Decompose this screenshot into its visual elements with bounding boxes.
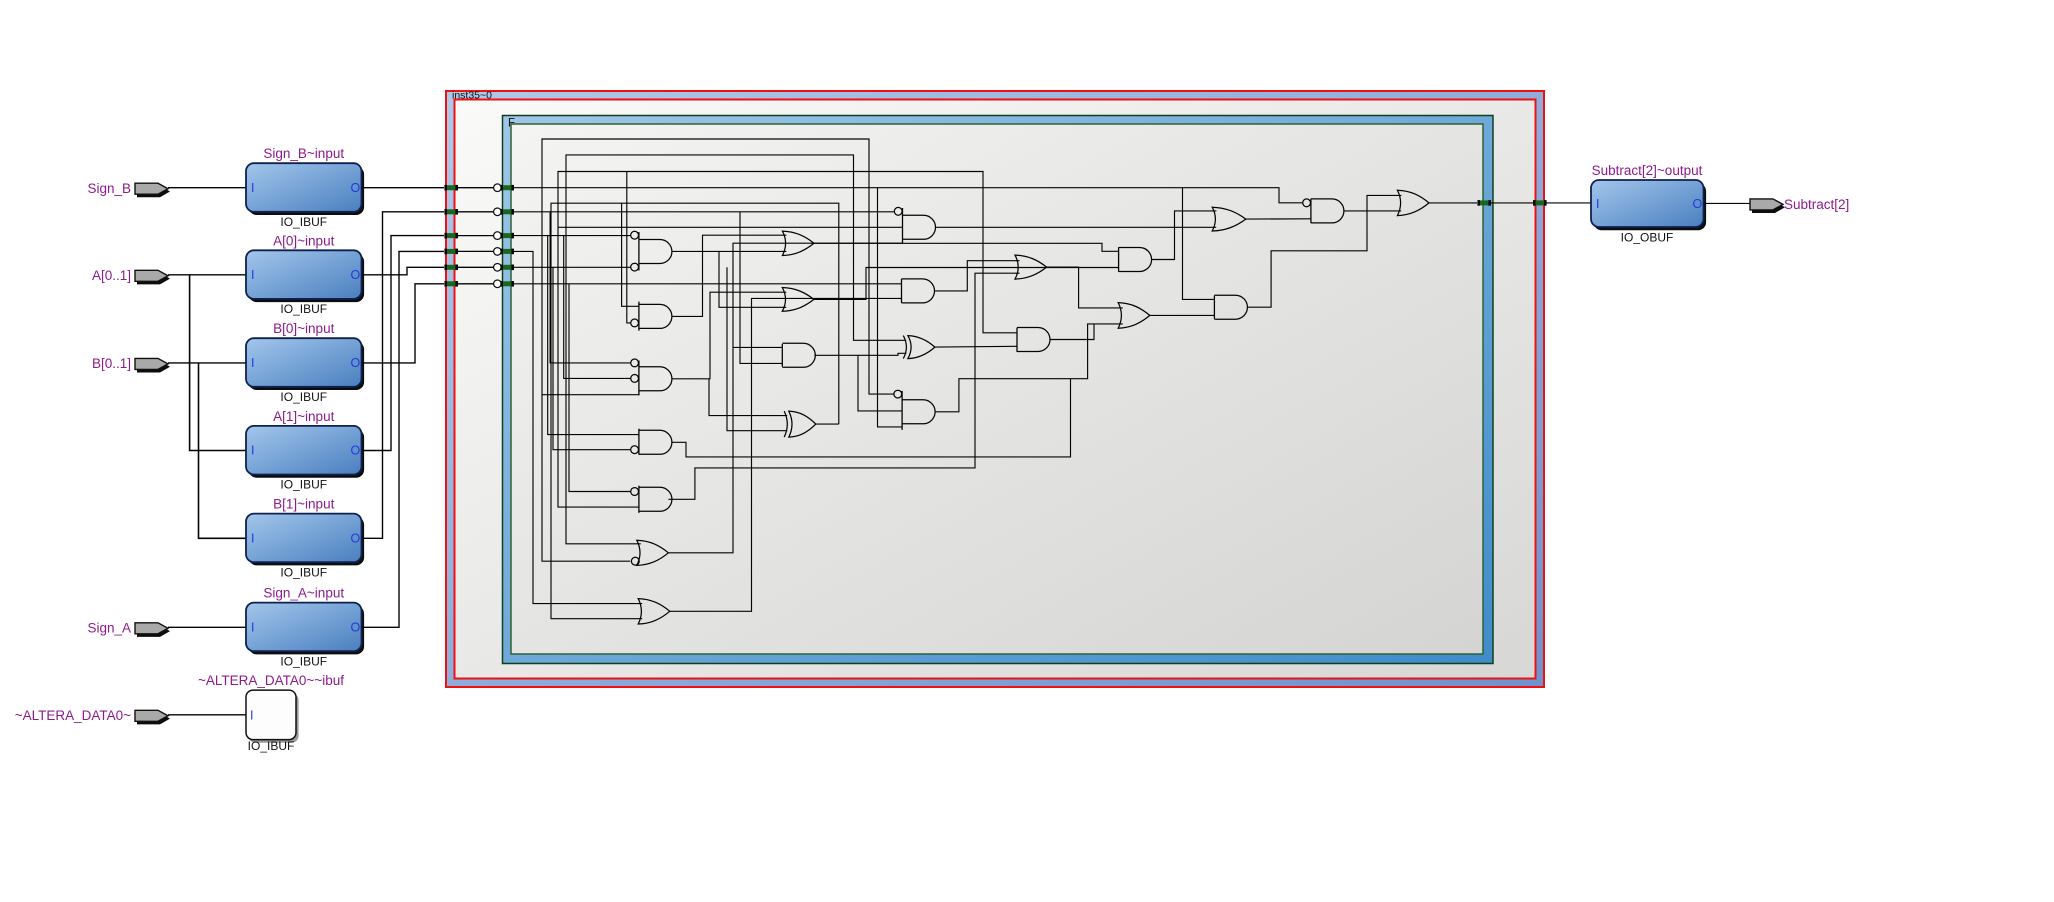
junction connector at inst35~0 boundary <box>444 249 458 255</box>
junction connector at inst35~0 boundary <box>444 185 458 191</box>
wire into F <box>458 250 501 252</box>
svg-text:Subtract[2]~output: Subtract[2]~output <box>1592 163 1703 178</box>
svg-text:Subtract[2]: Subtract[2] <box>1784 197 1849 212</box>
wire g17 out <box>1247 195 1401 307</box>
wire g5 out <box>668 273 1019 499</box>
and-gate G3 (3-input, 2 inverted) <box>631 359 672 395</box>
junction connector at F boundary <box>500 265 514 271</box>
or-gate G21 <box>782 288 814 312</box>
buffer Sign_A~input (IO_IBUF) <box>246 603 364 655</box>
buffer B[1]~input (IO_IBUF) <box>246 514 364 566</box>
input pin Sign_B <box>135 183 170 197</box>
wire F to inst35~0 boundary <box>1491 202 1533 204</box>
buffer ~ALTERA_DATA0~~ibuf (IO_IBUF) <box>246 690 299 743</box>
wire branch Sign_B to AND g11 in3 <box>878 188 903 427</box>
junction connector at F boundary <box>500 249 514 255</box>
and-gate G4 (inverted lower input) <box>631 429 672 455</box>
wire A[0]~input output <box>362 267 445 275</box>
wire into F <box>458 211 501 213</box>
and-gate G2 (inverted lower input) <box>631 302 672 331</box>
or-gate G12 <box>1015 255 1047 279</box>
or-gate G20 <box>782 231 814 255</box>
node port circle <box>494 232 502 240</box>
and-gate G11 (3-input, inverted top input) <box>894 390 935 430</box>
svg-text:I: I <box>251 531 254 545</box>
junction connector at inst35~0 right boundary <box>1533 200 1547 206</box>
wire feedback c <box>558 172 1017 508</box>
svg-text:I: I <box>250 708 253 722</box>
wire Sign_B~input output <box>362 187 445 189</box>
junction connector at inst35~0 boundary <box>444 209 458 215</box>
wire to output buffer <box>1547 202 1592 204</box>
wire B[0]~input output <box>362 284 445 363</box>
input pin B[0..1] <box>135 358 170 372</box>
svg-text:A[1]~input: A[1]~input <box>273 409 334 424</box>
svg-text:O: O <box>351 444 361 458</box>
svg-text:O: O <box>351 531 361 545</box>
wire net B[0] row <box>514 283 902 285</box>
wire to g22 in1 <box>733 346 782 348</box>
wire g8 out <box>936 226 1217 228</box>
junction connector at F boundary <box>500 209 514 215</box>
wire pin to buffer <box>168 714 246 716</box>
wire net A[1] row <box>514 235 631 237</box>
wire to g11 in2 <box>858 355 902 411</box>
svg-text:O: O <box>351 620 361 634</box>
or-gate G15 <box>1118 303 1150 329</box>
wire g10 out <box>935 345 1017 348</box>
svg-text:O: O <box>351 356 361 370</box>
or-gate G19 <box>1397 190 1429 215</box>
wire into F <box>458 187 501 189</box>
wire to g3 in3 <box>542 394 639 396</box>
node port circle <box>494 184 502 192</box>
wire g21 out <box>814 268 1119 300</box>
wire g23 out <box>816 423 839 425</box>
svg-text:O: O <box>1693 197 1703 211</box>
wire g1 branch to g21 in2 <box>719 251 786 307</box>
wire g9 out <box>935 261 1020 291</box>
and-gate G17 <box>1214 295 1247 319</box>
wire branch A1 to AND g4 <box>548 236 639 435</box>
junction connector at F boundary <box>500 185 514 191</box>
junction connector at F boundary <box>500 233 514 239</box>
wire g6 out <box>668 243 902 553</box>
input pin Sign_A <box>135 623 170 637</box>
svg-text:IO_IBUF: IO_IBUF <box>280 654 327 668</box>
wire g16 out <box>1246 218 1311 220</box>
and-gate G14 <box>1119 247 1152 271</box>
svg-text:I: I <box>251 181 254 195</box>
and-gate G18 (inverted top input) <box>1303 199 1344 223</box>
svg-text:A[0]~input: A[0]~input <box>273 233 334 248</box>
wire pin to buffer <box>168 274 246 276</box>
node port circle <box>494 248 502 256</box>
node port circle <box>494 208 502 216</box>
wire branch B1 to AND g3 <box>550 212 630 363</box>
svg-text:IO_IBUF: IO_IBUF <box>280 478 327 492</box>
wire g20 out <box>814 243 1119 251</box>
or-gate G16 <box>1212 207 1246 231</box>
wire Sign_A~input output <box>362 251 445 627</box>
wire B bus branch <box>199 363 247 538</box>
wire to g23 in1 <box>709 379 787 416</box>
svg-text:IO_IBUF: IO_IBUF <box>280 390 327 404</box>
junction connector at inst35~0 boundary <box>444 281 458 287</box>
submodule box F frame <box>503 116 1494 664</box>
svg-text:IO_IBUF: IO_IBUF <box>280 215 327 229</box>
wire net B[1] row <box>514 211 895 213</box>
wire to g3 in2 <box>564 236 631 379</box>
node port circle <box>494 280 502 288</box>
output pin Subtract[2] <box>1750 199 1785 213</box>
wire g15 out <box>1150 314 1215 316</box>
wire g12 out <box>1047 267 1123 308</box>
and-gate G8 (3-input, inverted top input) <box>894 207 935 243</box>
wire g11 out <box>935 324 1123 412</box>
or-gate G6 (inverted lower input) <box>631 540 668 565</box>
svg-text:~ALTERA_DATA0~~ibuf: ~ALTERA_DATA0~~ibuf <box>198 673 344 688</box>
wire to g2 in2 <box>627 172 631 323</box>
module box inst35~0 outer frame <box>446 91 1544 687</box>
svg-text:Sign_B: Sign_B <box>87 181 131 196</box>
wire net Sign_A row <box>514 251 643 603</box>
svg-text:IO_OBUF: IO_OBUF <box>1621 231 1674 245</box>
svg-text:I: I <box>251 356 254 370</box>
wire g14 out <box>1152 211 1217 260</box>
svg-text:I: I <box>1596 197 1599 211</box>
buffer A[1]~input (IO_IBUF) <box>246 426 364 478</box>
svg-text:I: I <box>251 620 254 634</box>
wire into F <box>458 283 501 285</box>
or-gate G7 <box>638 599 670 624</box>
input pin A[0..1] <box>135 270 170 284</box>
wire g19 out to border <box>1429 202 1477 204</box>
wire g8 in2 <box>558 226 903 228</box>
wire A bus branch <box>190 275 246 451</box>
buffer Subtract[2]~output (IO_OBUF) <box>1591 180 1706 230</box>
junction connector at F boundary <box>500 281 514 287</box>
svg-text:IO_IBUF: IO_IBUF <box>248 739 295 753</box>
and-gate G5 (inverted upper input) <box>631 486 672 513</box>
svg-text:inst35~0: inst35~0 <box>452 90 492 102</box>
svg-text:I: I <box>251 268 254 282</box>
svg-text:B[1]~input: B[1]~input <box>273 497 334 512</box>
wire pin to buffer <box>168 187 246 189</box>
wire g2 out <box>672 235 787 316</box>
buffer B[0]~input (IO_IBUF) <box>246 338 364 390</box>
wire feedback d <box>551 203 839 619</box>
wire branch A0 to AND g4 in2 <box>553 267 630 449</box>
and-gate G9 <box>902 279 935 303</box>
wire branch B0 to AND g5 <box>569 284 631 492</box>
buffer Sign_B~input (IO_IBUF) <box>246 163 364 215</box>
wire to g2 in1 <box>622 203 639 306</box>
svg-text:F: F <box>508 118 515 130</box>
xor-gate G23 <box>784 411 816 437</box>
svg-text:A[0..1]: A[0..1] <box>92 268 131 283</box>
junction connector at inst35~0 boundary <box>444 233 458 239</box>
xor-gate G10 <box>903 336 935 359</box>
svg-text:IO_IBUF: IO_IBUF <box>280 565 327 579</box>
and-gate G13 <box>1017 328 1050 352</box>
svg-text:~ALTERA_DATA0~: ~ALTERA_DATA0~ <box>15 708 131 723</box>
svg-text:B[0]~input: B[0]~input <box>273 321 334 336</box>
wire g18 out <box>1344 210 1401 212</box>
wire B[1]~input output <box>362 212 445 539</box>
wire g22 out <box>814 353 906 355</box>
and-gate G1 (NOR-style, 2 inverted inputs) <box>631 231 672 271</box>
wire branch A0 to XOR g23 in2 <box>727 267 787 430</box>
node port circle <box>494 264 502 272</box>
wire pin to buffer <box>168 362 246 364</box>
wire pin to buffer <box>168 626 246 628</box>
wire feedback b <box>566 155 906 544</box>
wire net Sign_B row <box>514 188 1303 203</box>
svg-text:Sign_A~input: Sign_A~input <box>263 586 344 601</box>
wire g3 out <box>672 292 787 379</box>
and-gate G22 <box>782 343 815 367</box>
wire A[1]~input output <box>362 236 445 451</box>
wire g13 out <box>1050 324 1094 340</box>
svg-text:Sign_A: Sign_A <box>87 621 131 636</box>
svg-text:Sign_B~input: Sign_B~input <box>263 146 344 161</box>
wire g4 out <box>672 379 1071 457</box>
junction connector at F right boundary <box>1477 200 1491 206</box>
wire into F <box>458 235 501 237</box>
buffer A[0]~input (IO_IBUF) <box>246 250 364 302</box>
wire net A[0] row <box>514 266 631 268</box>
svg-text:B[0..1]: B[0..1] <box>92 356 131 371</box>
wire g1 out <box>672 250 787 252</box>
svg-text:I: I <box>251 444 254 458</box>
svg-text:O: O <box>351 181 361 195</box>
wire feedback a <box>542 139 894 561</box>
wire branch B1 to AND g22 <box>740 212 782 364</box>
wire into F <box>458 266 501 268</box>
svg-text:O: O <box>351 268 361 282</box>
wire g7 out <box>670 298 902 611</box>
junction connector at inst35~0 boundary <box>444 265 458 271</box>
svg-text:IO_IBUF: IO_IBUF <box>280 302 327 316</box>
wire branch Sign_B to AND g17 <box>1183 188 1215 300</box>
wire buffer to output pin <box>1704 202 1751 204</box>
input pin ~ALTERA_DATA0~ <box>135 710 170 724</box>
